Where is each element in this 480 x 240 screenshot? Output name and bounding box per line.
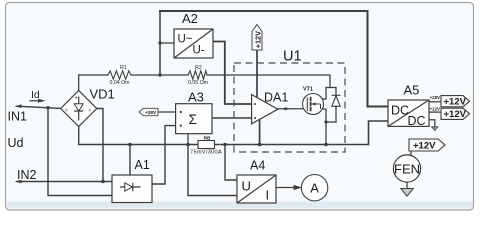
svg-text:Ud: Ud — [8, 136, 24, 150]
regulator dashed box U1 — [234, 63, 345, 152]
svg-text:≈: ≈ — [65, 108, 68, 114]
rectifier block A1 — [112, 175, 152, 203]
converter block A2 — [174, 29, 213, 58]
power tag +28V at A3 — [139, 108, 158, 115]
wire IN1 tap down to A1 lower input — [48, 108, 112, 196]
svg-text:RB: RB — [204, 135, 211, 140]
bottom scan blue band — [7, 202, 473, 209]
svg-text:U-: U- — [193, 45, 205, 57]
wire FEN flag stub — [410, 151, 412, 156]
svg-text:+12V: +12V — [253, 31, 262, 48]
power flag +12V at FEN — [409, 139, 445, 151]
junction A2 left pin — [158, 41, 161, 44]
wire A3 bottom pin to rail — [187, 134, 189, 145]
wire top rail from A2 column to A5 upper input — [160, 11, 388, 107]
wire VT1 source lead down and diode bottom link — [311, 109, 336, 145]
svg-text:+12V: +12V — [444, 97, 467, 108]
wire VD1 plus riser — [78, 75, 80, 91]
svg-text:VD1: VD1 — [90, 86, 115, 101]
power flag +12V out1 — [441, 96, 470, 107]
junction IN1 tap — [46, 106, 50, 110]
svg-text:VT1: VT1 — [303, 87, 313, 93]
svg-text:R2: R2 — [195, 65, 202, 71]
svg-text:IN1: IN1 — [8, 110, 28, 124]
svg-text:+12V: +12V — [444, 109, 467, 120]
wire +28V tag to A3 input 1 — [158, 111, 176, 113]
ammeter A — [301, 175, 327, 201]
svg-text:A: A — [310, 181, 319, 196]
junction rail VT1 source — [324, 143, 328, 147]
svg-text:-: - — [81, 121, 83, 127]
wire body diode leads — [335, 88, 337, 123]
svg-text:+28V: +28V — [145, 110, 157, 116]
wire A5 output 2 — [429, 111, 441, 113]
junction IN2 tap — [101, 180, 105, 184]
svg-text:≈: ≈ — [89, 108, 92, 114]
svg-text:A1: A1 — [135, 158, 150, 172]
resistor R2 — [188, 71, 207, 79]
wire A1 top pin from rail — [129, 145, 131, 176]
svg-text:A2: A2 — [182, 11, 198, 26]
wire Id current arrow line — [30, 100, 40, 102]
current converter block A4 — [237, 175, 276, 203]
junction rail DA1 feedback — [258, 143, 262, 147]
arrow IN2 external — [15, 180, 22, 184]
svg-text:A5: A5 — [404, 82, 420, 97]
svg-text:Id: Id — [31, 89, 40, 101]
svg-text:Σ: Σ — [189, 112, 197, 127]
svg-text:U~: U~ — [178, 34, 193, 46]
wire A4 output to ammeter — [276, 187, 295, 189]
wire A5 output 1 — [429, 101, 441, 103]
junction rail shunt left — [186, 143, 190, 147]
wire FEN ground stem — [406, 182, 408, 189]
wire A3 output to DA1 input 2 — [212, 117, 252, 119]
wire main output rail to A5 lower input — [79, 121, 388, 145]
dc-dc converter block A5 — [388, 100, 429, 126]
wire VT1 drain lead up — [311, 88, 326, 100]
op-amp DA1 — [252, 95, 278, 124]
svg-text:I: I — [266, 188, 270, 203]
shunt resistor RB 75mV/300A — [198, 141, 215, 149]
svg-text:FEN: FEN — [394, 162, 420, 177]
power flag +12V out2 — [441, 108, 470, 119]
arrow DA1 output — [285, 107, 291, 110]
junction VT1 source diode — [324, 120, 327, 123]
body diode of VT1 — [332, 95, 341, 106]
svg-text:DA1: DA1 — [264, 91, 288, 105]
wire main positive rail y75 with R1 R2 — [79, 75, 336, 88]
svg-text:U1: U1 — [283, 49, 302, 65]
svg-text:U: U — [242, 179, 251, 194]
resistor R1 — [108, 71, 131, 79]
svg-text:0,04 Om: 0,04 Om — [110, 80, 130, 86]
wire IN1 — [17, 106, 61, 108]
wire DA1 output to VT1 gate — [278, 108, 307, 110]
arrow IN1 external — [15, 104, 22, 108]
arrow A4 to ammeter — [294, 185, 303, 190]
wire A5 ground hook — [429, 120, 435, 127]
wire A2 left pin — [160, 42, 174, 44]
wire shunt right tap down to A4 input 1 — [225, 145, 237, 181]
svg-text:R1: R1 — [120, 65, 127, 71]
wire vertical A2 column — [159, 11, 161, 75]
fan FEN — [393, 155, 420, 182]
svg-text:+12V: +12V — [430, 106, 440, 111]
ground under FEN — [401, 189, 413, 197]
ground at A5 — [432, 127, 438, 131]
svg-text:A3: A3 — [188, 89, 204, 104]
junction rail to A1 — [128, 143, 132, 147]
wire IN2 to A1 — [17, 181, 112, 183]
wire +12V flag down to DA1 top — [256, 50, 258, 97]
svg-text:0,05 Om: 0,05 Om — [188, 80, 208, 86]
wire A2 output down to DA1 input 1 — [213, 42, 252, 105]
wire A1 output up to A3 input 2 — [152, 126, 176, 184]
junction rail shunt right — [223, 143, 227, 147]
svg-text:+12V: +12V — [413, 141, 436, 152]
wire DA1 feedback down to output rail — [259, 120, 261, 145]
svg-text:+: + — [75, 96, 78, 102]
junction R1-R2 tap to A2 — [158, 73, 161, 76]
svg-text:A4: A4 — [250, 158, 265, 172]
svg-text:75mV/300A: 75mV/300A — [190, 149, 222, 155]
bridge rectifier VD1 — [61, 91, 97, 127]
svg-text:IN2: IN2 — [17, 168, 37, 182]
summing block A3 — [176, 104, 212, 134]
arrow Id current — [38, 99, 46, 103]
wire shunt left tap down to A4 input 2 — [188, 145, 237, 196]
power flag +12V above DA1 — [252, 25, 262, 51]
wire VD1 AC2 stub down to IN2 — [97, 109, 103, 182]
wire VD1 minus riser to output rail — [78, 127, 80, 145]
svg-text:DC: DC — [391, 104, 409, 118]
svg-text:DC: DC — [408, 114, 426, 128]
svg-text:+28V: +28V — [430, 95, 440, 100]
